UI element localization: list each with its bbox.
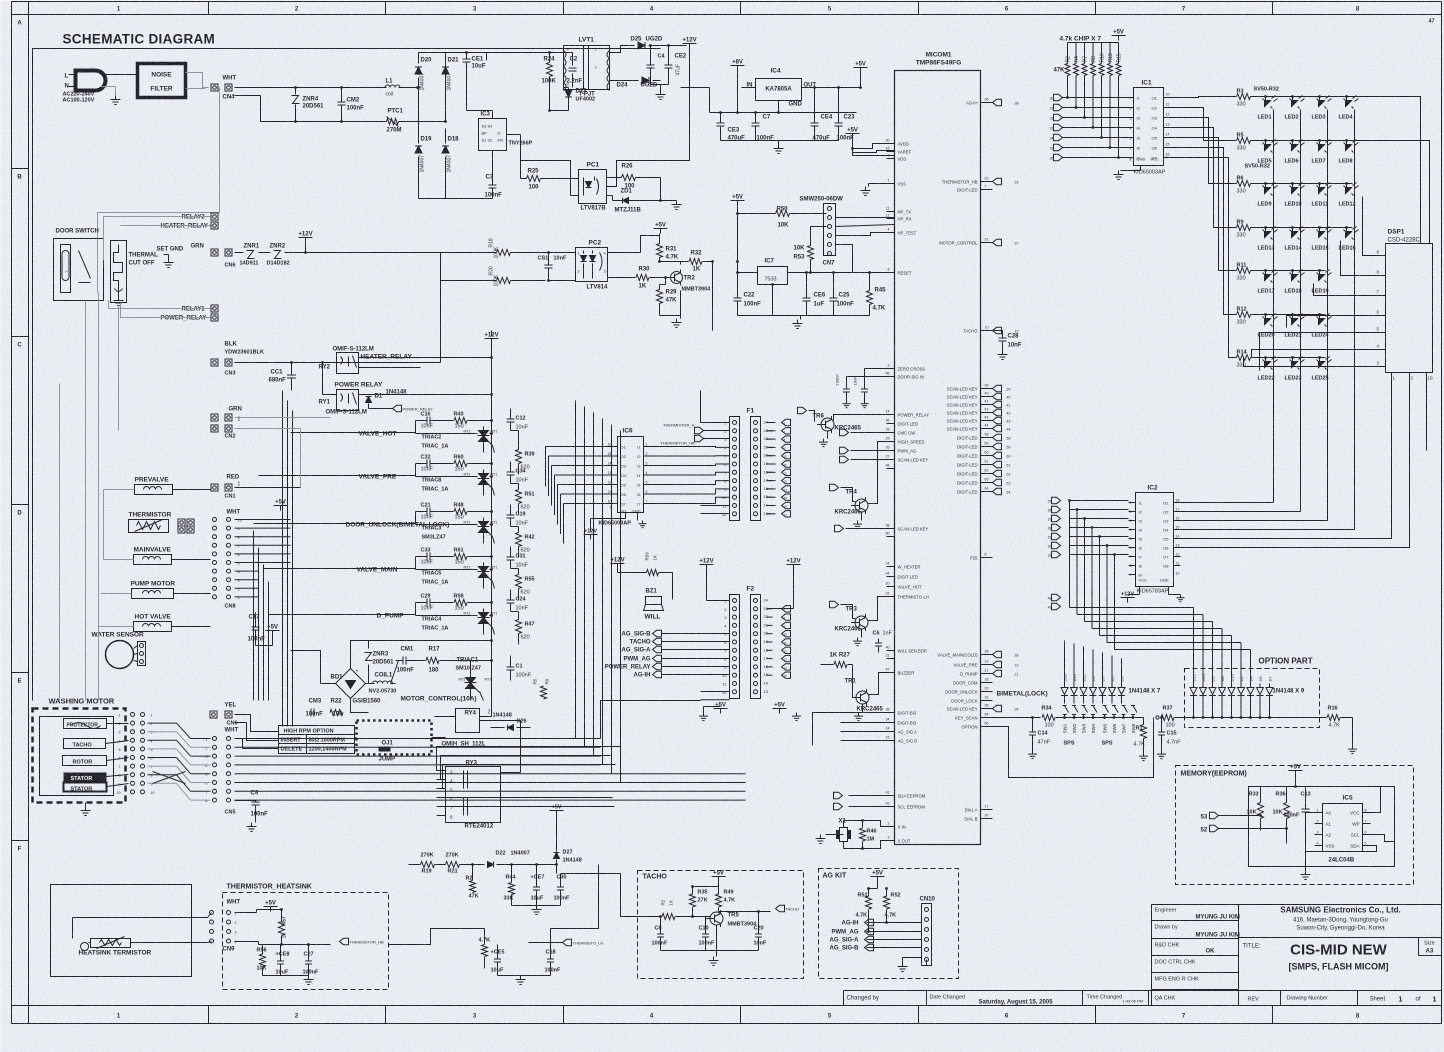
resistor R47 bbox=[516, 620, 522, 634]
wire zener row bbox=[235, 252, 244, 254]
wire relay2 bbox=[104, 217, 211, 261]
long bottom wires bbox=[389, 929, 485, 945]
wire bundles micom left lower bbox=[841, 712, 887, 714]
f1 left wires bbox=[701, 422, 730, 424]
diode D23 bbox=[565, 90, 572, 97]
resistor R48 bottom bbox=[482, 945, 488, 957]
memory eeprom box bbox=[1176, 766, 1414, 885]
washing motor wires bbox=[107, 723, 129, 725]
wire tr2 collector to micom bbox=[712, 262, 714, 331]
ground regulator bbox=[721, 140, 839, 142]
resistor R1 bbox=[1141, 725, 1147, 739]
rotor bbox=[63, 756, 107, 766]
wire micom bottom left bbox=[886, 826, 888, 828]
ground zd1 bbox=[676, 201, 678, 205]
ground agkit bbox=[926, 960, 928, 966]
led column drops to IC2 bbox=[1273, 376, 1275, 503]
ground ic2 bbox=[1168, 587, 1170, 595]
resistor R57 bbox=[279, 922, 285, 936]
wires bd1 left bbox=[321, 683, 336, 685]
ground cn9 bbox=[263, 975, 309, 977]
wire noise filter loop bbox=[98, 88, 220, 293]
wires cn6 to rpm table bbox=[235, 714, 251, 716]
ic2 input flags bbox=[1052, 497, 1061, 503]
capacitor C22 bbox=[734, 297, 742, 299]
relay coil wires RY3 bbox=[501, 772, 521, 774]
wire main AC rail bbox=[235, 87, 387, 89]
connector CN9 bbox=[210, 911, 214, 915]
wire AC L to noise filter bbox=[101, 74, 138, 76]
AC input plug bbox=[76, 71, 106, 91]
wire bundle to f2 bbox=[601, 701, 701, 739]
wire option jumper wires bbox=[432, 737, 446, 739]
wires dsp bottom bbox=[1181, 381, 1392, 539]
bottom row cells bbox=[844, 990, 1442, 992]
ag kit box bbox=[819, 869, 959, 979]
capacitor CM2 bbox=[338, 101, 346, 103]
wire AC N to ground bbox=[101, 86, 116, 88]
protector bbox=[64, 719, 107, 729]
wires motor control bbox=[366, 683, 375, 685]
wires bundle to ry3 bbox=[437, 747, 621, 771]
tacho out flag bbox=[719, 911, 771, 913]
resistor R39 bbox=[516, 450, 522, 464]
wires prevalve left bbox=[104, 489, 135, 491]
size box bbox=[1418, 938, 1420, 956]
wires heatsink to cn9 bbox=[208, 913, 212, 918]
vertical bus x300 bbox=[300, 429, 302, 488]
ground vss bbox=[869, 183, 895, 185]
ground ce5 bbox=[498, 975, 551, 977]
wire bundle cn8 right lower bbox=[235, 570, 259, 572]
capacitor C28 tacho bbox=[993, 330, 1003, 332]
switch row SW1-SW8 SPS bbox=[1063, 705, 1067, 707]
varistor ZNR4 bbox=[292, 96, 300, 104]
wire bundle vertical right of cn5 bbox=[575, 401, 577, 739]
wire noise filter to CN4 bbox=[186, 73, 209, 88]
wires ic2 inputs staircase bbox=[1070, 500, 1129, 502]
resistor R5 vertical bbox=[541, 686, 547, 699]
ground memory bbox=[1305, 867, 1307, 871]
wires micom sda scl bbox=[849, 795, 887, 797]
ground x1 bbox=[826, 834, 844, 836]
capacitor C1 bbox=[507, 666, 515, 668]
wire ry4 right bbox=[480, 721, 521, 773]
memory inner box bbox=[1249, 787, 1395, 867]
ic1 input flags bbox=[1054, 94, 1063, 100]
f2 arrows bbox=[767, 608, 773, 610]
resistor R51 bbox=[516, 490, 522, 504]
wire bundle cn8 drops bbox=[253, 531, 255, 701]
ground r16 bbox=[1352, 746, 1354, 750]
led matrix bbox=[1251, 96, 1353, 98]
termistor symbol bbox=[91, 939, 131, 948]
ground AC bbox=[115, 96, 117, 100]
wire bundle middle verticals bbox=[282, 391, 284, 727]
capacitor CE1 bbox=[463, 58, 471, 60]
heatsink wires bbox=[73, 917, 208, 919]
micom cmc pwm scan flags bbox=[840, 429, 849, 435]
wires f2 lower bbox=[701, 691, 730, 693]
wires ic6 to f1 bbox=[652, 446, 730, 449]
capacitor C31 bbox=[507, 556, 515, 558]
wire set-gnd row to R18 bbox=[306, 252, 495, 254]
stator 2 bbox=[64, 783, 107, 792]
ground reset bbox=[738, 315, 870, 317]
noise filter bbox=[138, 64, 186, 98]
stator 1 bbox=[64, 773, 107, 782]
washing motor connectors bbox=[131, 713, 135, 717]
ground d27 row bbox=[512, 905, 561, 907]
wire door switch down bbox=[85, 301, 87, 701]
washing motor ground bbox=[85, 803, 87, 807]
diode D1 bbox=[366, 397, 372, 403]
thermal cut off bbox=[111, 241, 127, 303]
option bus to R16 bbox=[1194, 717, 1313, 719]
capacitor C24 bbox=[507, 599, 515, 601]
IC3 TNY266P bbox=[479, 119, 507, 151]
wire relay rail top bbox=[491, 331, 493, 337]
f1 arrows bbox=[767, 422, 773, 424]
wires CN7 to micom bbox=[836, 217, 895, 219]
wire R18 R20 to PC2 bbox=[441, 252, 497, 254]
wire d27 row right bbox=[561, 873, 621, 875]
thermistor heatsink box bbox=[223, 893, 389, 990]
high rpm option table bbox=[279, 726, 355, 754]
thermistor flags f1 bbox=[695, 427, 704, 433]
title block bbox=[1152, 905, 1442, 1006]
ground ic6 bbox=[637, 513, 639, 521]
wire bundle cn8 to right bbox=[235, 519, 291, 521]
wire valve rows to triacs bbox=[291, 432, 416, 434]
wires ic1 outputs to led rows bbox=[1171, 97, 1237, 98]
wire bundle left verticals bbox=[59, 384, 61, 701]
memory wires bbox=[1296, 787, 1381, 813]
power relay flag bbox=[393, 405, 402, 411]
wires micom to key columns bbox=[1069, 501, 1071, 608]
led column wires bbox=[1273, 115, 1275, 376]
thermistor hb flag bbox=[340, 938, 349, 944]
wire relay1 bbox=[109, 301, 211, 309]
capacitor C15 bbox=[1158, 731, 1165, 733]
ground tacho bbox=[661, 950, 759, 952]
option long wire bbox=[993, 718, 1154, 778]
wire pc1 feedback bbox=[571, 195, 579, 197]
resistor R42 bbox=[516, 533, 522, 547]
wires cn2 to relay row bbox=[235, 417, 331, 419]
ground smps sec bbox=[651, 84, 669, 86]
wire transformer top to D25 to +12V bbox=[610, 46, 635, 53]
ground tr2 bbox=[680, 316, 682, 319]
wires rows to DSP right bbox=[1353, 97, 1421, 244]
tacho box bbox=[638, 871, 804, 979]
tacho bbox=[64, 739, 106, 749]
capacitor C34 bbox=[507, 471, 515, 473]
wire bridge rails bbox=[418, 53, 420, 64]
wire row to flag bbox=[529, 942, 563, 944]
transistor TR2 bbox=[671, 272, 683, 284]
agkit wires bbox=[867, 922, 887, 924]
wire lower AC rail bbox=[235, 95, 261, 97]
key scan bus bbox=[993, 717, 1041, 719]
wire ac rectified to IC4 bbox=[709, 88, 711, 113]
heatsink termistor box bbox=[51, 885, 192, 977]
left section outline box bbox=[33, 49, 661, 701]
capacitors near zero cross bbox=[843, 388, 850, 390]
wire bundle cn5 to center bbox=[235, 738, 601, 740]
capacitor C12 bbox=[507, 418, 515, 420]
dsp bottom pins bbox=[1391, 373, 1393, 381]
resistor R55 bbox=[516, 575, 522, 589]
wire cn9 row4 bbox=[235, 941, 259, 943]
resistor R46 bbox=[860, 828, 866, 841]
thermisto lh flag bbox=[563, 939, 572, 945]
capacitor C19 bbox=[507, 514, 515, 516]
motor control triac bbox=[365, 653, 373, 661]
jumper OJ1 box bbox=[357, 721, 432, 755]
wires dsp pins to led rows bbox=[1363, 197, 1374, 256]
wire motor to cn5 with crossover bbox=[148, 722, 177, 724]
wire smps primary bbox=[487, 52, 550, 54]
transistor TR5 bbox=[710, 912, 723, 925]
wire CN3 right bbox=[235, 362, 331, 364]
wire triac bus lower bbox=[491, 713, 493, 717]
